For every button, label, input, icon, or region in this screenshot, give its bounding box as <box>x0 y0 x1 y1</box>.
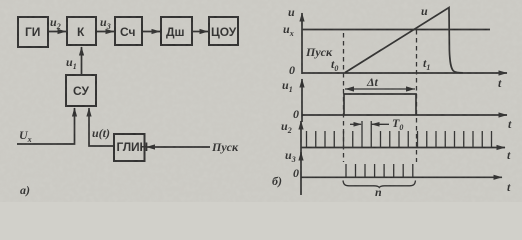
dashed line t0 <box>343 33 345 162</box>
level line ux <box>302 29 490 31</box>
wire Ux to СУ <box>17 108 75 144</box>
block СЧ <box>115 17 142 45</box>
axis t graph1 <box>302 72 507 74</box>
block ГИ <box>18 17 48 47</box>
wire СЧ to Дш <box>142 31 160 33</box>
ramp curve u <box>345 8 463 73</box>
brace n <box>343 181 416 188</box>
block ГЛИН <box>114 134 145 161</box>
axis u1 vertical <box>301 79 303 122</box>
axis u2 vertical <box>300 121 302 155</box>
wire ГИ to К <box>48 31 66 33</box>
pulse train u3 <box>346 164 413 177</box>
dashed line t1 <box>416 30 418 162</box>
wire Пуск to ГЛИН <box>147 146 211 148</box>
block СУ <box>66 75 96 106</box>
axis t graph4 <box>301 176 502 178</box>
dim T0 <box>350 123 361 125</box>
wire СУ to К <box>81 47 83 75</box>
block ЦОУ <box>209 17 238 45</box>
axis t graph2 <box>302 114 507 116</box>
wire ГЛИН to СУ <box>89 108 114 146</box>
axis u vertical <box>301 13 303 74</box>
dim Δt <box>345 88 415 90</box>
paper texture <box>0 0 1 1</box>
pulse train u2 <box>307 121 492 148</box>
block К <box>67 17 96 45</box>
wire К to СЧ <box>96 31 114 33</box>
block Дш <box>161 17 192 45</box>
axis u3 vertical <box>300 152 302 195</box>
wire Дш to ЦОУ <box>192 31 208 33</box>
pulse u1 <box>344 94 416 115</box>
axis t graph3 <box>301 147 505 149</box>
